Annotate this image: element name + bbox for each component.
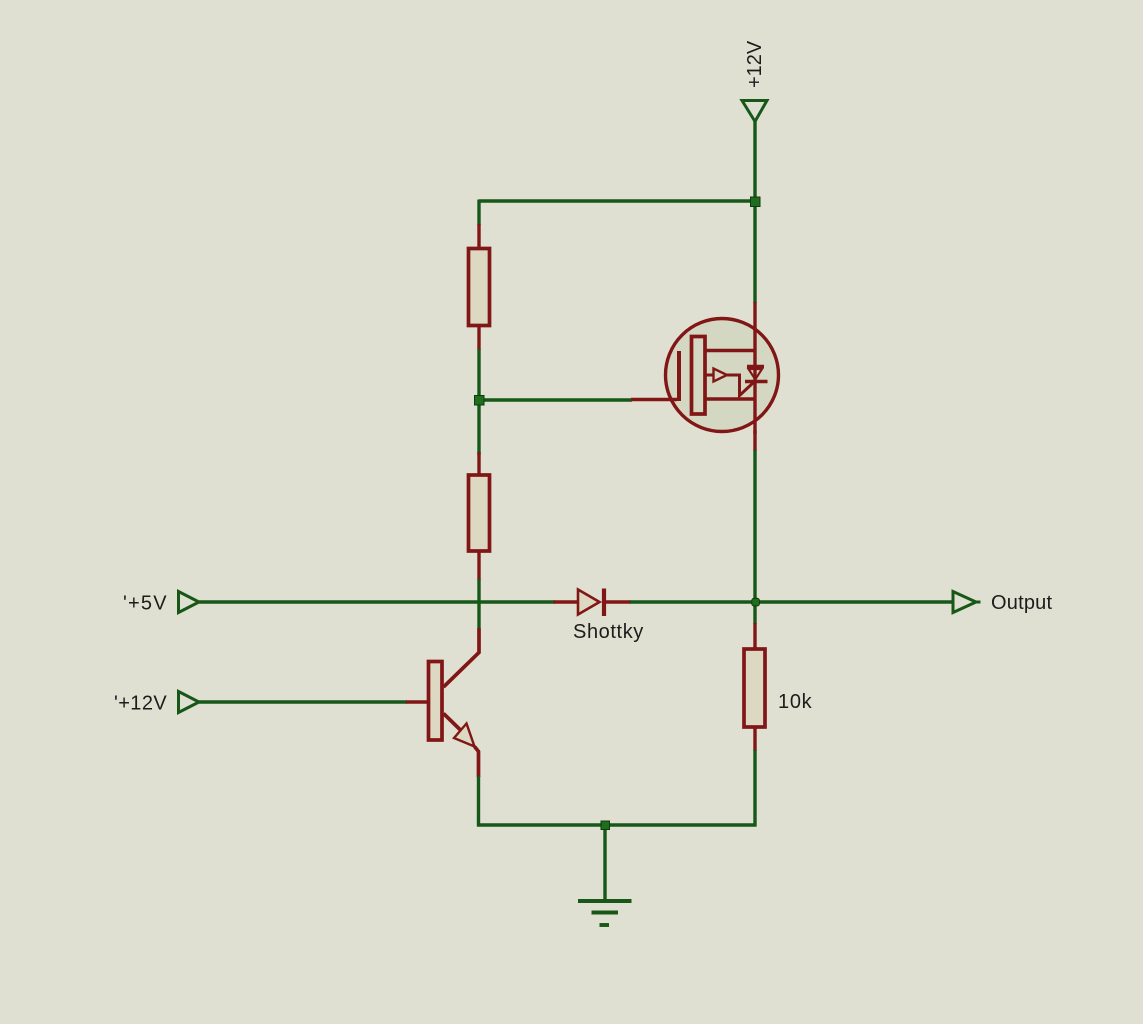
pin: base [406,700,428,703]
wire: bottom ground rail [477,823,757,826]
terminal '+5V [179,592,200,613]
transistor Q1 emitter arrow [454,724,475,747]
MOSFET gate bar [677,351,681,401]
wire: R1 to gate junction [477,349,480,401]
pin: MOSFET drain top [753,302,756,320]
diode D1 Shottky [578,589,604,617]
terminal Output [953,592,981,613]
junction node output [752,598,760,606]
MOSFET Q2 body circle [666,319,779,432]
ground symbol [578,901,632,925]
transistor Q1 collector [444,628,480,687]
wire: +12V terminal down to top rail [753,121,756,203]
wire: +5V line diode to output junction [630,600,953,603]
wire: R2 to +5V line crossing [477,579,480,628]
MOSFET body diode [745,367,768,382]
wire: MOSFET source to output junction [753,450,756,624]
svg-text:'+12V: '+12V [114,693,167,715]
wire: top horizontal +12V rail [479,199,755,202]
wire: left vertical from corner to R1 [477,200,480,226]
terminal '+12V [179,692,200,713]
junction node top rail [751,197,761,207]
svg-text:Shottky: Shottky [573,621,644,643]
resistor R1 [469,249,490,326]
wire: gate junction to MOSFET gate [479,398,632,401]
resistor R2 [469,475,490,551]
resistor R3 10k [744,649,765,727]
transistor Q1 base bar [429,662,443,741]
MOSFET source lead inside [705,397,756,400]
power terminal +12V [742,101,767,122]
wire: base wire [199,700,407,703]
MOSFET channel bar [692,337,706,415]
pin: R3 bottom [753,727,756,751]
transistor Q1 emitter [444,714,463,732]
wire: R3 to ground rail [753,750,756,827]
pin: R3 top [753,623,756,650]
wire: right vertical +12V to MOSFET [753,200,756,303]
junction node gate [475,396,485,406]
svg-text:Output: Output [991,592,1052,614]
MOSFET drain lead inside [705,349,756,352]
pin: MOSFET source bottom [753,430,756,451]
pin: diode cathode [605,600,631,603]
pin: R1 bottom [477,325,480,350]
svg-text:+12V: +12V [744,40,766,88]
junction node ground [601,821,610,830]
MOSFET internal vertical (drain-source) [753,320,756,434]
wire: ground stem [603,825,606,900]
wire: emitter down to ground rail [477,776,480,827]
wire: +5V line left of diode [199,600,555,603]
pin: R1 top [477,224,480,250]
transistor Q1 emitter tail [475,747,479,778]
pin: MOSFET gate [631,398,677,401]
pin: R2 top [477,452,480,477]
svg-text:'+5V: '+5V [123,593,168,615]
pin: diode anode [554,600,580,603]
MOSFET substrate arrow [705,369,754,396]
pin: R2 bottom [477,551,480,580]
wire: junction down to R2 [477,400,480,455]
svg-text:10k: 10k [778,691,813,713]
